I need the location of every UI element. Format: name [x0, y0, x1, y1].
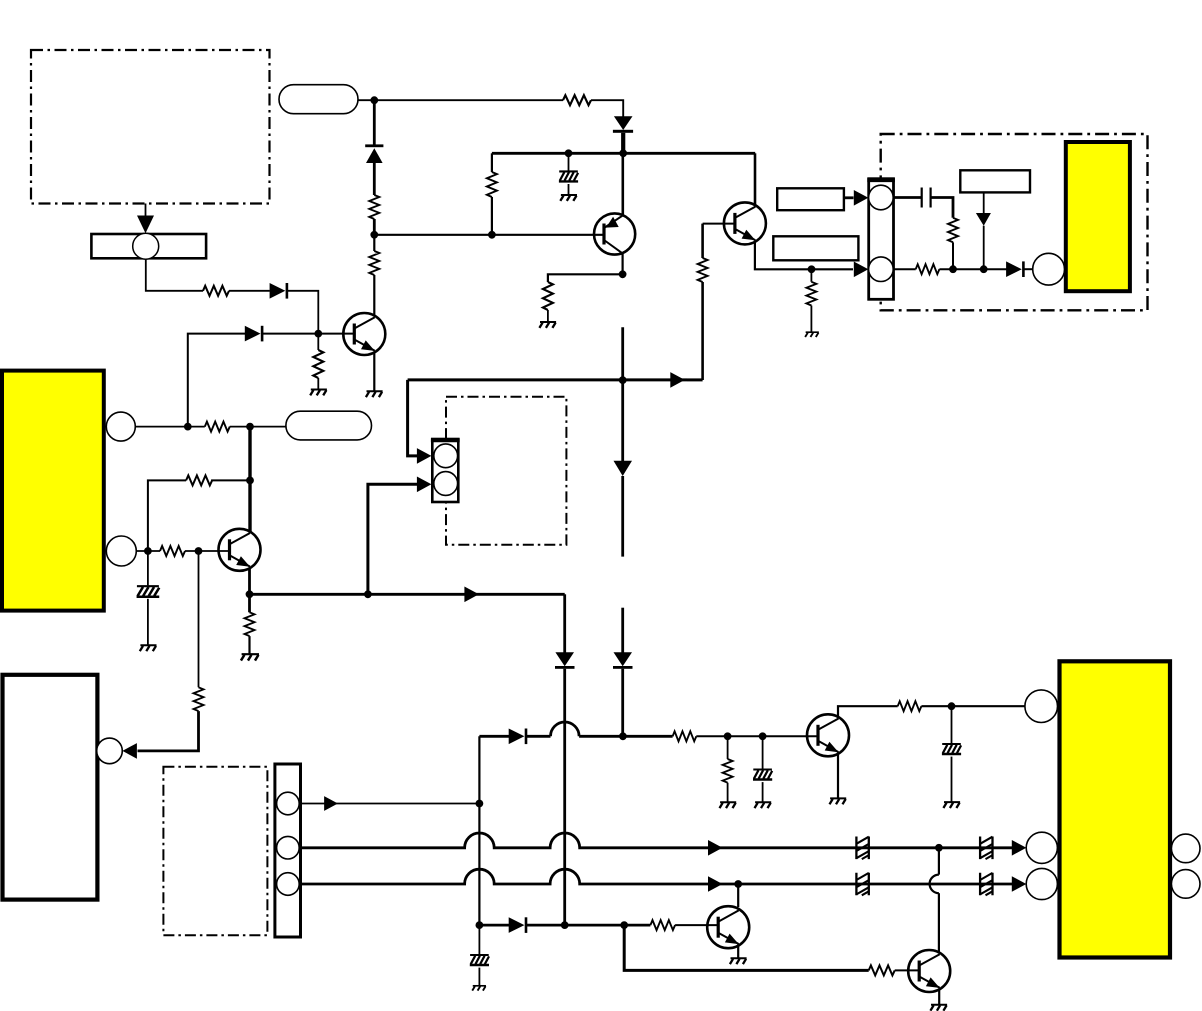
Q5 emitter wire [837, 753, 839, 798]
wire R15 corner to arrow [138, 711, 199, 751]
connector block top-right [869, 179, 894, 300]
2pin connector block [432, 439, 458, 502]
shield S4 on wire3 [980, 873, 992, 896]
arrow into pin wire3 [1012, 876, 1027, 892]
node wire2 T7 column [935, 844, 943, 852]
dash-dot block box top-left [31, 50, 270, 204]
wire node to resistor R6 [374, 99, 563, 101]
wire D5 to node [621, 669, 624, 737]
node base branch [620, 921, 628, 929]
Q3 emitter wire [621, 153, 624, 216]
base column to pin3 [198, 551, 200, 687]
Q4 base wire [703, 223, 735, 225]
pin circle upper left [106, 412, 135, 441]
feedback wire with resistor R13 [211, 479, 250, 481]
arrow into 2pin pin1 [417, 448, 432, 464]
wire D7 to hop [527, 735, 551, 738]
wire R17 to Q5 base [696, 735, 818, 737]
arrow down mid [976, 213, 991, 226]
node under R5 [488, 231, 496, 239]
ground G13 [140, 645, 157, 651]
node collector column top [246, 423, 254, 431]
dash-dot block box top-right [881, 134, 1148, 310]
2pin pin2 [434, 472, 458, 496]
node bus cross [619, 376, 627, 384]
dash-dot inner box bottom [163, 767, 267, 936]
arrow on wire2 [708, 840, 723, 856]
wire R10 to node [952, 242, 954, 269]
dash-dot inner box right [446, 397, 566, 545]
wire R4 to node [373, 235, 375, 251]
resistor R16 [245, 612, 255, 636]
ground G11 [930, 1005, 947, 1011]
resistor R18 to ground [727, 736, 729, 759]
wire4 [479, 924, 509, 927]
arrow into connector pin2 [854, 262, 869, 278]
branch y380 down to 2pin connector [408, 380, 418, 456]
pin circle right1 [1171, 834, 1200, 863]
pin circle lower left [106, 536, 136, 566]
resistor R9 [810, 269, 812, 282]
wire corner to Q4 collector [754, 153, 757, 205]
branch from wire4 down to bottom bus [624, 925, 869, 970]
Q1 collector column [248, 427, 251, 532]
ground G5 [830, 798, 847, 804]
wire R20 to Q6 base [675, 924, 718, 926]
node wire4 left [476, 921, 484, 929]
label box1 [777, 188, 844, 210]
mixer box [91, 234, 206, 258]
ground G3 [560, 195, 577, 201]
Q7 emitter wire [938, 988, 940, 1004]
transistor Q7 [908, 950, 950, 992]
ground G12 [805, 332, 819, 337]
T7 collector column with hop over wire3 [938, 848, 940, 875]
node wire3 Q6 collector [734, 880, 742, 888]
wire resistor to ground [317, 378, 319, 389]
ground G10 [730, 958, 747, 964]
white block bottom-left [3, 675, 98, 900]
diode D2 [245, 326, 264, 342]
Q6 emitter wire [737, 945, 739, 958]
ground G8 [755, 802, 772, 808]
wire R14 to base [185, 550, 230, 552]
transistor Q1 [219, 529, 261, 571]
long bus vertical line [621, 327, 624, 462]
resistor R19 [898, 701, 922, 711]
pin circle wire3 [1026, 868, 1057, 899]
node C3 [759, 732, 767, 740]
ground G9 [472, 986, 486, 991]
wire box1 to arrow [844, 196, 854, 199]
arrow into 2pin pin2 [417, 477, 432, 493]
Q4 base resistor column R8 [701, 224, 704, 258]
hop over vertical [551, 722, 580, 736]
wire cap to corner and resistor R10 [931, 198, 953, 218]
pill terminal P1 [279, 85, 358, 114]
connector pin2 [869, 257, 894, 282]
ground G2 [366, 391, 383, 397]
node box4 join [980, 265, 988, 273]
wire pin1 to capacitor [894, 196, 922, 199]
diode D8 [509, 917, 528, 933]
wire D8 onward [527, 924, 651, 927]
resistor R21 [869, 965, 895, 975]
resistor R15 [194, 687, 204, 711]
resistor R7 [543, 282, 553, 310]
capacitor C3 hatched [762, 736, 764, 769]
resistor R3 [369, 195, 379, 219]
wire y594 [250, 593, 565, 596]
arrow on wire3 [708, 876, 723, 892]
wire box4 down [983, 192, 985, 214]
wire3 with hops [301, 869, 1013, 884]
pin circle yellow3 top [1025, 690, 1058, 723]
transistor Q5 [807, 714, 849, 756]
diode D1 [270, 283, 289, 299]
node feedback join [246, 477, 254, 485]
node wireB start [184, 423, 192, 431]
node pill junction [370, 96, 378, 104]
pin circle white box [97, 738, 123, 764]
3pin connector block [275, 764, 301, 937]
wire pin to node [135, 426, 205, 428]
arrow on bus y380 [670, 372, 685, 388]
diode D6 down [555, 652, 575, 669]
wire R7 to ground [547, 310, 549, 322]
mixer circle [133, 233, 159, 259]
transistor Q6 [707, 906, 749, 948]
heavy bus wire y380 [408, 378, 687, 381]
wire1 thin [301, 803, 480, 805]
resistor R14 [160, 546, 185, 556]
node base resistor join [195, 547, 203, 555]
node bus join y736 [619, 732, 627, 740]
wire R12 to pill2 [230, 426, 286, 428]
wire R3 to node [373, 219, 376, 235]
connector pin1 [869, 185, 894, 210]
transistor Q2 [343, 313, 385, 355]
diode D5 down [613, 652, 633, 669]
transistor Q4 [724, 202, 766, 244]
node cap column [144, 547, 152, 555]
wire D6 down long [563, 669, 566, 925]
wire2 with hops [301, 833, 1013, 848]
3pin pin1 [277, 792, 300, 815]
resistor R17 [673, 731, 697, 741]
ground G1 [310, 390, 327, 396]
wire from D1 to corner down [288, 291, 319, 334]
Q1 emitter wire [248, 568, 251, 613]
wire pin to Q1 base [136, 550, 160, 552]
3pin pin2 [277, 836, 300, 859]
Q3 collector wire [621, 254, 623, 274]
arrow on y594 [464, 587, 479, 603]
node emitter branch [808, 265, 816, 273]
wire node to T3 base [374, 234, 604, 236]
wire D3 to resistor R3 [373, 163, 376, 195]
arrow into mixer [137, 216, 154, 234]
resistor R20 [650, 920, 675, 930]
3pin pin3 [277, 873, 300, 896]
node emitter branch [246, 590, 254, 598]
node y594 branch [364, 590, 372, 598]
vertical from y736 corner down [478, 736, 480, 925]
pin circle into yellow2 [1033, 253, 1065, 285]
resistor R11 [916, 264, 940, 274]
node R18 [724, 732, 732, 740]
capacitor C4 hatched [147, 551, 149, 585]
diode D9 [1006, 261, 1025, 277]
pin circle wire2 [1026, 832, 1057, 863]
ground G14 [241, 654, 259, 660]
node R10 join [949, 265, 957, 273]
label box2 [773, 236, 858, 260]
pin circle right2 [1171, 870, 1200, 899]
2pin pin1 [434, 444, 458, 468]
wire D4 to junction [621, 133, 625, 154]
wire D2 to base junction [263, 333, 355, 335]
pill terminal P2 [286, 411, 372, 440]
resistor R5 column [491, 197, 493, 235]
wire from box to mixer arrow [145, 204, 147, 218]
arrow into connector pin1 [854, 190, 869, 206]
node cap junction [565, 149, 573, 157]
shield S3 on wire3 [856, 873, 868, 896]
wire pill to node [358, 99, 374, 101]
wire R6 to corner [591, 100, 623, 117]
label box4 [960, 170, 1030, 192]
wire to diode D1 [229, 290, 270, 292]
wire R19 to pin [921, 705, 1025, 707]
capacitor C5 hatched [478, 925, 480, 954]
Q6 collector wire [737, 884, 739, 907]
node C2 [948, 702, 956, 710]
capacitor C0 [922, 188, 931, 208]
node Q3 collector [619, 270, 627, 278]
Q5 collector wire up and right [838, 706, 898, 718]
wire R21 to Q7 base [895, 969, 920, 971]
wire pin2 to diode D9 [894, 268, 916, 270]
shield S1 on wire2 [856, 837, 868, 860]
ground G4 [539, 322, 556, 328]
diode D7 [509, 729, 528, 745]
wire hop to resistor R17 [579, 735, 673, 738]
emitter wire Q2 [373, 352, 375, 391]
wire junction down to resistor [317, 334, 319, 350]
arrow into white box pin [122, 743, 136, 759]
wire R16 to ground [248, 636, 250, 654]
node mid column [370, 231, 378, 239]
arrow down on bus [614, 461, 633, 476]
Q4 emitter wire [755, 242, 853, 270]
node base junction [314, 330, 322, 338]
diode D4 down [613, 116, 633, 133]
wire D9 to pin [1024, 268, 1033, 270]
yellow block top-right [1066, 142, 1130, 291]
wire R11 onward [939, 268, 1007, 270]
node wire1 join [476, 800, 484, 808]
wire A from mixer down and right [146, 259, 203, 291]
resistor R1 [203, 286, 229, 296]
shield S2 on wire2 [980, 837, 992, 860]
branch to 2pin pin2 [368, 484, 418, 594]
corner y594 down with diode D6 [563, 594, 566, 653]
yellow block left [2, 371, 104, 611]
node diode junction [619, 149, 627, 157]
resistor R6 [563, 95, 591, 105]
capacitor C6 hatched [568, 153, 570, 170]
resistor R10 [948, 218, 958, 242]
wire B vertical from lower junction up [188, 334, 245, 427]
wire arrow to node [983, 226, 985, 270]
node D6 column join [561, 921, 569, 929]
resistor R2 [313, 350, 323, 378]
arrow on wire1 [324, 796, 338, 811]
transistor Q3 PNP [594, 213, 635, 254]
wire collector to resistor R7 [548, 274, 623, 282]
wire main y153 [492, 152, 755, 155]
collector wire Q2 [373, 275, 375, 316]
resistor R12 [205, 422, 230, 432]
ground G7 [720, 802, 737, 808]
wire y736 from corner [479, 735, 509, 738]
yellow block bottom-right [1060, 661, 1171, 957]
resistor R4 above Q2 [369, 251, 379, 275]
ground G6 [943, 802, 960, 808]
corner bus up to Q4 base [687, 378, 703, 381]
diode D3 up on pill column [373, 100, 376, 147]
arrow into pin wire2 [1012, 840, 1027, 856]
capacitor C2 hatched [951, 706, 953, 743]
